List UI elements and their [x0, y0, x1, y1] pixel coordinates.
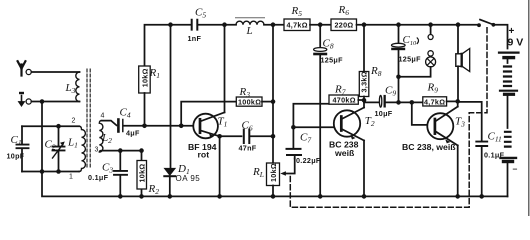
transistor T2 BC238 — [334, 108, 364, 141]
svg-text:0.1μF: 0.1μF — [88, 173, 109, 182]
wire top-left rail — [145, 25, 191, 66]
antenna terminal — [26, 69, 31, 74]
svg-text:10kΩ: 10kΩ — [140, 68, 149, 87]
resistor R8 — [359, 25, 369, 108]
capacitor C7 — [287, 127, 302, 158]
battery BT1 9V — [499, 53, 519, 197]
svg-text:BC 238, weiß: BC 238, weiß — [402, 142, 456, 152]
potentiometer RL — [267, 159, 295, 197]
resistor R2 — [137, 151, 147, 197]
wire node X column — [272, 25, 274, 163]
svg-text:weiß: weiß — [334, 148, 355, 158]
svg-text:–: – — [513, 164, 518, 174]
svg-text:OA 95: OA 95 — [176, 174, 201, 183]
svg-text:4,7kΩ: 4,7kΩ — [424, 97, 445, 106]
wire base line T2 — [293, 126, 335, 128]
antenna — [18, 61, 26, 75]
wire T2 emitter down — [363, 141, 365, 197]
transistor T3 BC238 — [427, 107, 457, 146]
wire C7 riser to R7 — [293, 104, 329, 128]
svg-text:2: 2 — [72, 118, 76, 125]
svg-text:rot: rot — [198, 150, 210, 160]
svg-text:3: 3 — [95, 147, 99, 154]
wire L2 top to C4 — [102, 121, 117, 126]
capacitor C4 — [118, 120, 144, 132]
svg-text:470kΩ: 470kΩ — [333, 96, 356, 105]
capacitor C9 — [364, 95, 423, 108]
wire R6 to switch — [357, 24, 477, 26]
svg-text:L: L — [246, 25, 253, 37]
wire T3 emitter down — [457, 145, 459, 196]
svg-text:220Ω: 220Ω — [335, 21, 354, 30]
wire T1 collector up — [224, 25, 226, 113]
ferrite core dashes — [87, 69, 90, 168]
wire switch to battery — [495, 25, 507, 49]
svg-text:1nF: 1nF — [188, 34, 202, 43]
earth terminal — [26, 99, 31, 104]
variable capacitor C2 — [53, 126, 65, 171]
wire antenna to L3 — [31, 71, 79, 73]
capacitor C5 — [192, 20, 198, 30]
svg-text:125μF: 125μF — [399, 55, 422, 64]
capacitor C11 — [458, 102, 488, 196]
resistor R1 — [139, 66, 151, 126]
wire T3 base tap — [412, 102, 435, 125]
switch contacts — [477, 23, 481, 27]
wire L to R5 — [264, 24, 284, 26]
svg-text:3,3kΩ: 3,3kΩ — [360, 71, 369, 92]
wire bottom ground rail — [42, 172, 508, 197]
capacitor C3 — [114, 151, 127, 197]
coupling coil L2 — [99, 121, 103, 152]
switch S1 — [480, 20, 492, 25]
svg-text:9 V: 9 V — [508, 37, 524, 49]
svg-text:4μF: 4μF — [126, 129, 140, 138]
wire R5 to R6 — [310, 24, 331, 26]
svg-text:47nF: 47nF — [239, 144, 257, 153]
svg-text:+: + — [509, 26, 515, 37]
resistor R7 — [329, 95, 364, 104]
wire C5 to L — [199, 24, 237, 26]
capacitor C8 — [313, 25, 327, 197]
wire base line T1 — [145, 125, 194, 127]
capacitor C10 — [391, 25, 405, 103]
resistor R9 — [423, 97, 458, 106]
scan border right — [528, 0, 530, 216]
polarity mark C10 — [417, 38, 419, 44]
wire ground link vertical — [41, 102, 43, 172]
wire tank top rail — [22, 125, 79, 127]
svg-text:10kΩ: 10kΩ — [269, 163, 278, 182]
svg-text:4: 4 — [101, 113, 105, 120]
svg-text:10μF: 10μF — [375, 109, 393, 118]
wire L2 bottom line — [102, 150, 142, 152]
capacitor C6 — [220, 130, 273, 144]
svg-text:1: 1 — [69, 174, 73, 181]
svg-text:10pF: 10pF — [7, 152, 25, 161]
diode D1 OA95 — [164, 25, 175, 197]
wire T3 collector stub — [457, 101, 459, 106]
mechanical link dashed — [290, 28, 487, 207]
resistor R5 — [284, 19, 310, 31]
wire earth to L3 bottom — [31, 101, 79, 103]
svg-text:0.1μF: 0.1μF — [484, 151, 505, 160]
coupling coil L3 — [76, 72, 80, 102]
svg-text:125μF: 125μF — [321, 56, 344, 65]
lamp jack branch — [399, 25, 436, 77]
capacitor C1 — [17, 126, 29, 171]
inductor L — [236, 18, 265, 25]
loudspeaker LS — [456, 25, 470, 102]
resistor R3 — [181, 97, 273, 126]
svg-text:4,7kΩ: 4,7kΩ — [287, 21, 308, 30]
svg-text:100kΩ: 100kΩ — [238, 97, 261, 106]
svg-text:0.22μF: 0.22μF — [296, 156, 321, 165]
transistor T1 BF194 — [193, 112, 224, 138]
tuning coil L1 — [79, 126, 85, 171]
resistor R6 — [331, 19, 357, 31]
svg-text:10kΩ: 10kΩ — [137, 164, 146, 183]
wire T1 emitter down — [219, 136, 221, 196]
wire tank bottom rail — [22, 171, 79, 173]
earth symbol — [18, 93, 24, 106]
